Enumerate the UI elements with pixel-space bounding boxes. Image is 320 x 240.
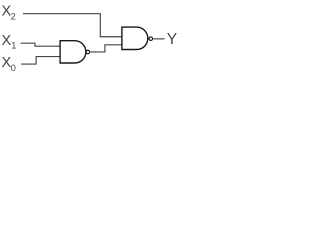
svg-text:Y: Y	[167, 31, 177, 48]
svg-text:X: X	[2, 33, 12, 49]
svg-text:1: 1	[11, 41, 16, 51]
svg-text:0: 0	[11, 63, 16, 73]
svg-text:2: 2	[11, 11, 16, 21]
